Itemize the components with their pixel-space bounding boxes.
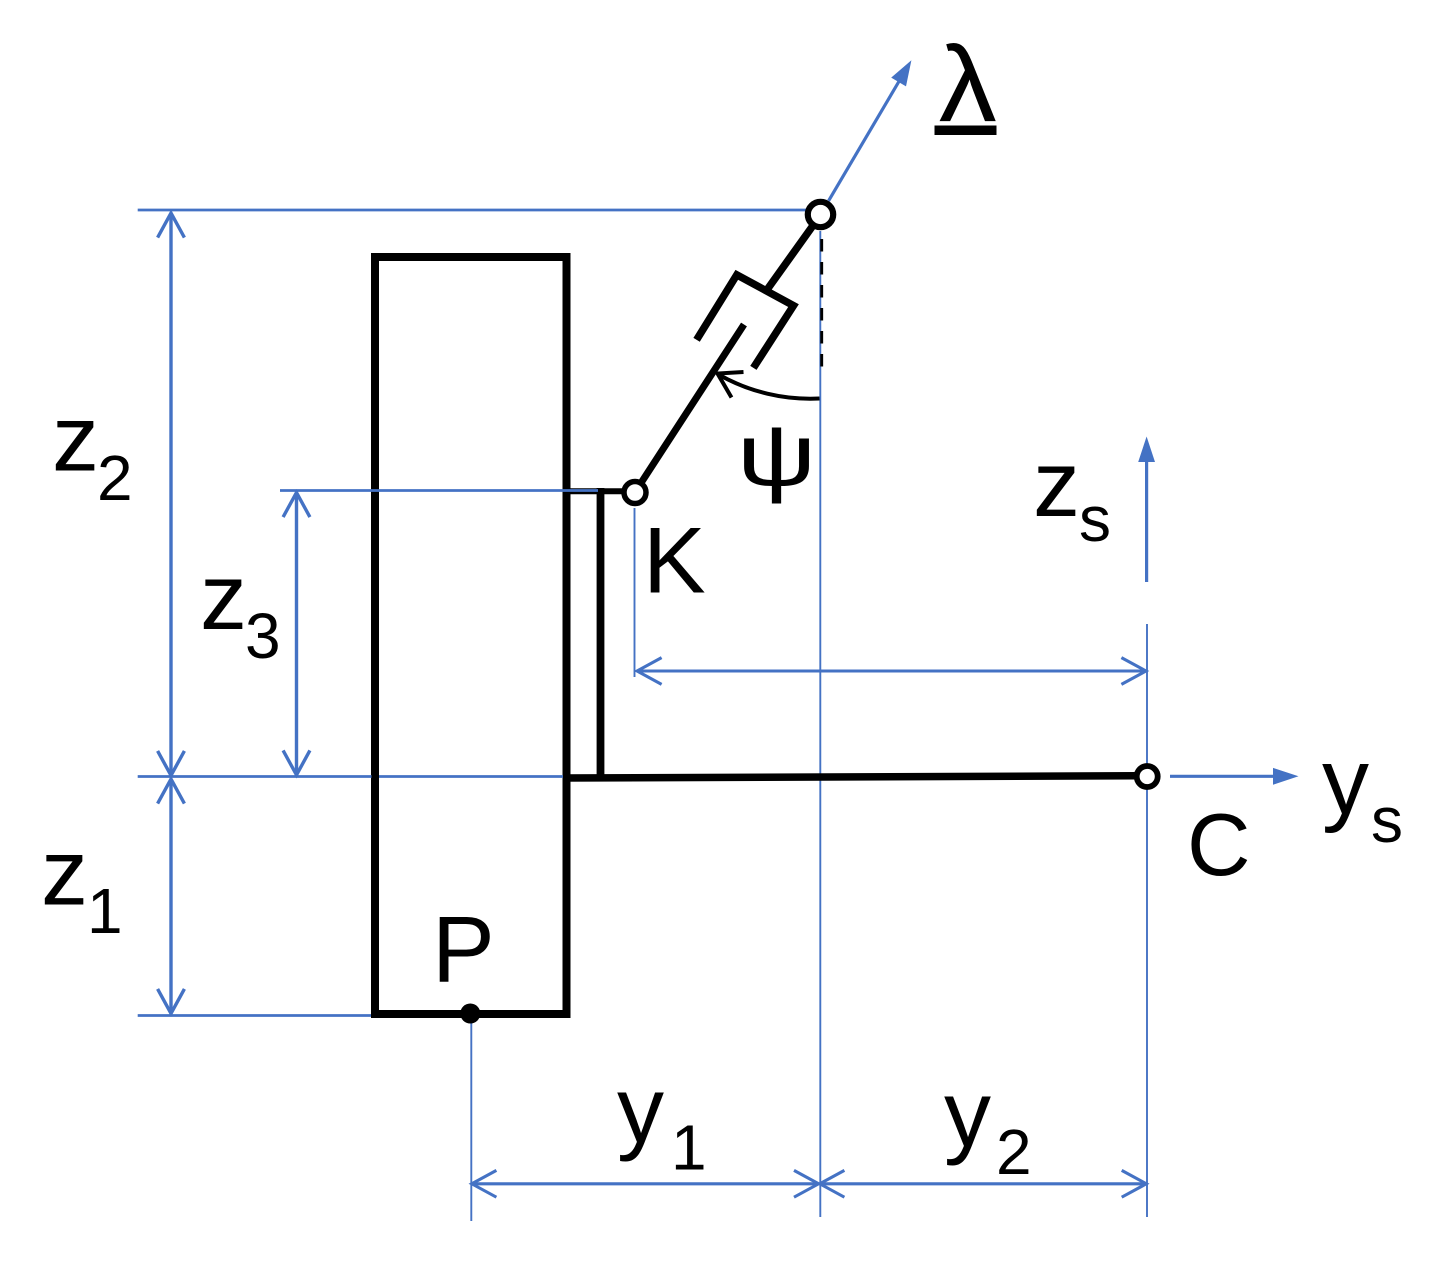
dimension y2 — [820, 1170, 1147, 1197]
svg-text:y: y — [944, 1061, 991, 1166]
svg-text:y: y — [1322, 729, 1369, 834]
construction line axle level (y=776.5) left part — [138, 775, 372, 778]
svg-text:1: 1 — [87, 875, 123, 947]
kingpin axis lambda arrow — [829, 60, 912, 201]
svg-text:3: 3 — [245, 600, 281, 672]
angle psi arc — [719, 375, 820, 399]
axis z_s arrow — [1138, 437, 1155, 583]
bracket vertical link K to axle — [597, 488, 605, 780]
dimension y1 — [472, 1170, 819, 1197]
label lambda underline — [935, 126, 997, 136]
construction line top (z2 upper extent, y=210) — [138, 209, 806, 212]
strut rod upper (cap to top joint) — [767, 226, 814, 291]
svg-text:1: 1 — [671, 1112, 707, 1184]
construction line K level (z3 upper extent, y=490.5) — [280, 489, 562, 492]
joint K circle — [624, 482, 646, 504]
axle link from wheel to C — [563, 776, 1135, 778]
top joint circle — [808, 202, 833, 227]
wheel rectangle — [375, 257, 567, 1014]
joint C circle — [1137, 766, 1158, 787]
svg-text:C: C — [1187, 795, 1251, 894]
svg-text:z: z — [52, 385, 99, 490]
contact point P dot — [460, 1004, 480, 1024]
angle psi arc arrowhead — [718, 372, 744, 398]
construction vertical through C (x=1147) — [1146, 624, 1148, 1217]
dimension z3 — [283, 493, 310, 776]
axis y_s arrow — [1170, 768, 1299, 785]
svg-text:ψ: ψ — [737, 406, 817, 504]
construction line wheel bottom (y=1015.5) — [138, 1014, 371, 1017]
svg-text:P: P — [432, 896, 495, 1001]
strut rod lower (K to piston) — [640, 325, 744, 485]
svg-text:y: y — [617, 1057, 664, 1162]
damper cylinder U shape — [697, 275, 794, 368]
construction overlay over connector — [562, 489, 598, 492]
svg-text:s: s — [1371, 784, 1403, 856]
dimension y3 — [637, 658, 1146, 685]
construction vertical through top joint (x=820.3) — [819, 231, 821, 1217]
dimension z2 — [158, 213, 185, 776]
svg-text:2: 2 — [996, 1116, 1032, 1188]
construction line axle level inside wheel — [379, 775, 563, 778]
dimension z1 — [158, 779, 185, 1014]
svg-text:K: K — [643, 507, 706, 612]
dashed vertical reference below top joint — [820, 233, 823, 368]
svg-text:2: 2 — [97, 442, 133, 514]
svg-text:z: z — [200, 544, 247, 649]
connector wheel to K — [563, 488, 623, 494]
construction vertical through P (x=471.3) — [470, 1022, 472, 1221]
construction vertical below K (x=634.5) — [634, 508, 636, 677]
svg-text:z: z — [41, 819, 88, 924]
svg-text:s: s — [1079, 483, 1111, 555]
svg-text:z: z — [1033, 431, 1080, 536]
